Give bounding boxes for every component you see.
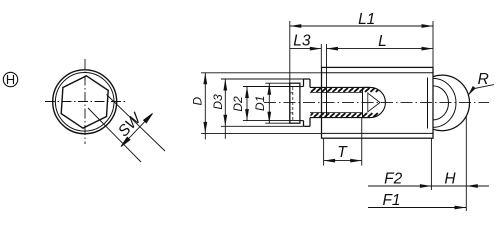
centerline vertical (left view) bbox=[84, 59, 86, 144]
inner circle (chamfer) bbox=[55, 73, 114, 132]
body bore line bottom bbox=[322, 132, 434, 134]
screw nose dome bbox=[363, 87, 386, 117]
svg-text:L3: L3 bbox=[293, 33, 311, 50]
D extension lines bbox=[201, 72, 321, 74]
dome outer arc (R) bbox=[433, 75, 470, 131]
SW extension line A bbox=[88, 108, 141, 162]
H dimension bbox=[431, 117, 489, 212]
view label H circled bbox=[3, 72, 17, 86]
hex socket hidden lines bbox=[290, 87, 293, 120]
centerline horizontal (side view) bbox=[264, 102, 489, 104]
F1 force arrow bbox=[368, 207, 466, 209]
thread hatch bbox=[309, 88, 381, 117]
hexagon SW bbox=[61, 76, 108, 128]
main body outer bbox=[322, 67, 434, 138]
screw inner end face bbox=[362, 87, 364, 117]
L1 dimension bbox=[290, 21, 433, 123]
svg-text:L: L bbox=[378, 33, 387, 50]
D1 extension lines bbox=[265, 82, 290, 84]
D2 dimension line bbox=[246, 87, 248, 121]
outer circle (body OD) bbox=[53, 70, 117, 134]
svg-text:D2: D2 bbox=[231, 96, 245, 112]
R leader bbox=[468, 85, 494, 96]
svg-text:L1: L1 bbox=[358, 11, 375, 28]
D dimension line bbox=[204, 73, 206, 140]
body bore line top bbox=[322, 72, 434, 74]
svg-text:R: R bbox=[478, 71, 489, 88]
SW dimension line with arrows bbox=[121, 114, 153, 147]
svg-text:F1: F1 bbox=[382, 192, 400, 209]
D1 dimension line bbox=[268, 83, 270, 123]
svg-text:D1: D1 bbox=[253, 96, 267, 111]
svg-text:T: T bbox=[337, 144, 348, 161]
L3 dimension bbox=[290, 44, 327, 88]
svg-text:H: H bbox=[444, 171, 456, 188]
T dimension bbox=[324, 118, 362, 166]
svg-text:D3: D3 bbox=[211, 94, 225, 110]
dome inner arc small bbox=[433, 86, 449, 120]
D arrows bbox=[203, 73, 271, 134]
L dimension bbox=[327, 48, 434, 50]
dome inner arc large bbox=[433, 78, 456, 127]
SW extension line B bbox=[107, 95, 166, 152]
collar D3 bbox=[304, 79, 311, 126]
neck edges bbox=[300, 86, 304, 88]
D3 dimension line bbox=[224, 79, 226, 139]
F2 force arrow bbox=[368, 185, 431, 187]
svg-text:F2: F2 bbox=[384, 171, 402, 188]
cone point bbox=[368, 93, 380, 112]
D3 extension lines bbox=[221, 78, 304, 80]
svg-text:D: D bbox=[191, 96, 205, 105]
D2 extension lines bbox=[243, 86, 300, 88]
pin base edge behind right face bbox=[427, 78, 429, 129]
centerline horizontal (left view) bbox=[45, 101, 128, 103]
end sleeve outer bbox=[290, 83, 300, 123]
thread root lines bbox=[310, 91, 363, 93]
thread relief vertical bbox=[326, 87, 328, 117]
thread crest lines bbox=[310, 86, 370, 88]
svg-text:H: H bbox=[6, 72, 15, 87]
